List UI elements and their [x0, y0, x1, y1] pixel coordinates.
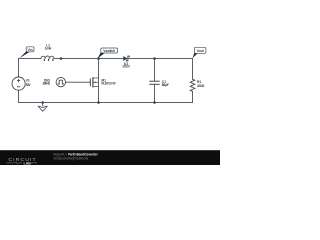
node Vout flag: [192, 47, 206, 58]
svg-text:10 V: 10 V: [26, 83, 32, 87]
wire diode cathode to Vout corner: [129, 58, 193, 60]
svg-text:220 Ω: 220 Ω: [197, 84, 205, 88]
junction: C1 top node: [153, 57, 156, 60]
resistor R1: [190, 79, 195, 91]
svg-text:68 µF: 68 µF: [162, 83, 169, 87]
footer bar: [0, 150, 220, 165]
junction: M1 source at bottom rail: [97, 101, 100, 104]
inductor L1: [41, 56, 54, 61]
svg-text:10 kHz: 10 kHz: [42, 81, 50, 85]
node Vin flag: [20, 47, 35, 58]
node Vswitch flag: [98, 48, 118, 58]
ground: [38, 103, 48, 112]
clock source CLK1: [56, 77, 65, 86]
wire V1 minus terminal down to bottom rail: [18, 90, 20, 102]
junction: L1 output node: [60, 57, 63, 60]
voltage source V1: [12, 77, 25, 90]
svg-text:IRLB8721PbF: IRLB8721PbF: [101, 82, 115, 86]
wire C1 top lead: [154, 59, 156, 82]
svg-text:circuitlab.com/c/5kwrg/722u84p: circuitlab.com/c/5kwrg/722u84p-ck4p: [53, 157, 88, 161]
wire R1 bottom lead: [192, 91, 194, 102]
junction: ground node: [41, 101, 44, 104]
diode D1 (schottky): [123, 56, 129, 61]
junction: Vswitch node (drain / diode anode): [97, 57, 100, 60]
svg-text:1 mH: 1 mH: [45, 47, 52, 51]
svg-text:V1: V1: [26, 78, 30, 82]
CircuitLab logo: [7, 157, 38, 166]
svg-text:1N5817: 1N5817: [122, 65, 130, 69]
junction: C1 bottom node: [153, 101, 156, 104]
svg-text:Vswitch: Vswitch: [103, 49, 115, 53]
wire R1 top lead: [192, 59, 194, 80]
svg-text:Vin: Vin: [28, 48, 33, 52]
svg-text:Vout: Vout: [197, 49, 205, 53]
transistor M1 (NMOS): [90, 77, 98, 87]
wire C1 bottom lead: [154, 84, 156, 102]
wire top-left horizontal (Vin node to L1): [19, 58, 42, 60]
wire MOSFET drain/source vertical: [98, 59, 100, 103]
wire bottom ground rail: [19, 102, 193, 104]
wire L1 to diode anode (through Vswitch node): [54, 58, 123, 60]
svg-text:LAB: LAB: [24, 162, 32, 165]
wire left vertical (Vin corner down to V1 plus terminal): [18, 59, 20, 78]
wire CLK1 to MOSFET gate: [66, 81, 91, 83]
capacitor C1: [149, 81, 159, 84]
